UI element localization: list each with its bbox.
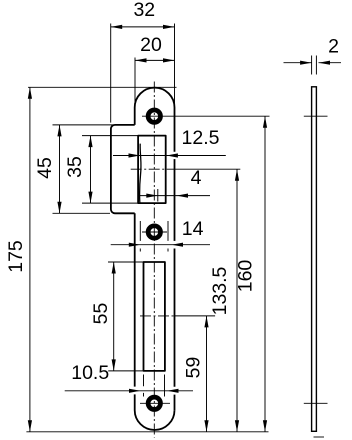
svg-text:12.5: 12.5	[182, 127, 220, 149]
svg-text:133.5: 133.5	[209, 266, 231, 315]
svg-text:55: 55	[90, 303, 112, 325]
svg-text:20: 20	[140, 34, 162, 56]
svg-text:175: 175	[5, 240, 27, 273]
svg-text:160: 160	[235, 260, 257, 293]
svg-text:35: 35	[64, 156, 86, 178]
svg-text:2: 2	[328, 35, 339, 57]
svg-text:59: 59	[183, 357, 205, 379]
svg-text:45: 45	[34, 157, 56, 179]
svg-text:14: 14	[182, 218, 204, 240]
svg-text:32: 32	[133, 0, 155, 21]
svg-text:4: 4	[191, 167, 202, 189]
svg-text:10.5: 10.5	[71, 362, 109, 384]
